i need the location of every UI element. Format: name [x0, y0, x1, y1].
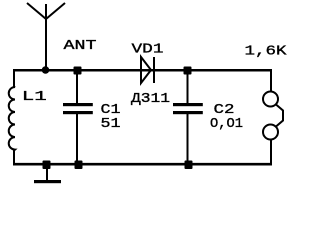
node junction C1 top: [74, 67, 82, 75]
node junction ground: [43, 161, 51, 170]
capacitor C2 bottom stub wire: [187, 114, 189, 165]
svg-text:Д311: Д311: [131, 91, 170, 107]
svg-text:VD1: VD1: [132, 41, 164, 57]
wire bottom horizontal: [13, 163, 272, 166]
capacitor C1 bottom stub wire: [76, 114, 78, 165]
capacitor C2 top plate: [173, 103, 203, 106]
antenna ANT left arm: [27, 3, 46, 19]
antenna ANT mast: [45, 4, 47, 70]
diode VD1 triangle: [141, 57, 151, 83]
headphone BF1 bottom earpiece: [263, 125, 278, 140]
node junction C2 bottom: [185, 161, 193, 170]
wire right bottom stub: [270, 140, 272, 166]
capacitor C1 bottom plate: [63, 111, 93, 114]
headphone BF1 top earpiece: [263, 92, 278, 107]
svg-text:ANT: ANT: [64, 38, 97, 54]
capacitor C1 top stub wire: [76, 70, 78, 104]
wire right top stub: [270, 69, 272, 92]
node junction antenna/top wire: [42, 66, 50, 74]
diode VD1 cathode bar: [153, 57, 155, 83]
node junction C2 top: [184, 67, 192, 75]
svg-text:51: 51: [101, 116, 121, 132]
capacitor C2 bottom plate: [173, 111, 203, 114]
ground stub wire: [46, 164, 48, 181]
svg-text:O,O1: O,O1: [210, 116, 243, 132]
ground bar: [34, 180, 61, 183]
headphone BF1 link: [276, 105, 283, 127]
node junction C1 bottom: [75, 161, 83, 170]
svg-text:1,6K: 1,6K: [245, 43, 288, 59]
wire top horizontal: [13, 69, 272, 72]
capacitor C2 top stub wire: [187, 70, 189, 104]
svg-text:L1: L1: [22, 89, 47, 105]
antenna ANT right arm: [46, 3, 65, 19]
inductor L1 (left branch with coil): [9, 69, 15, 165]
capacitor C1 top plate: [63, 103, 93, 106]
